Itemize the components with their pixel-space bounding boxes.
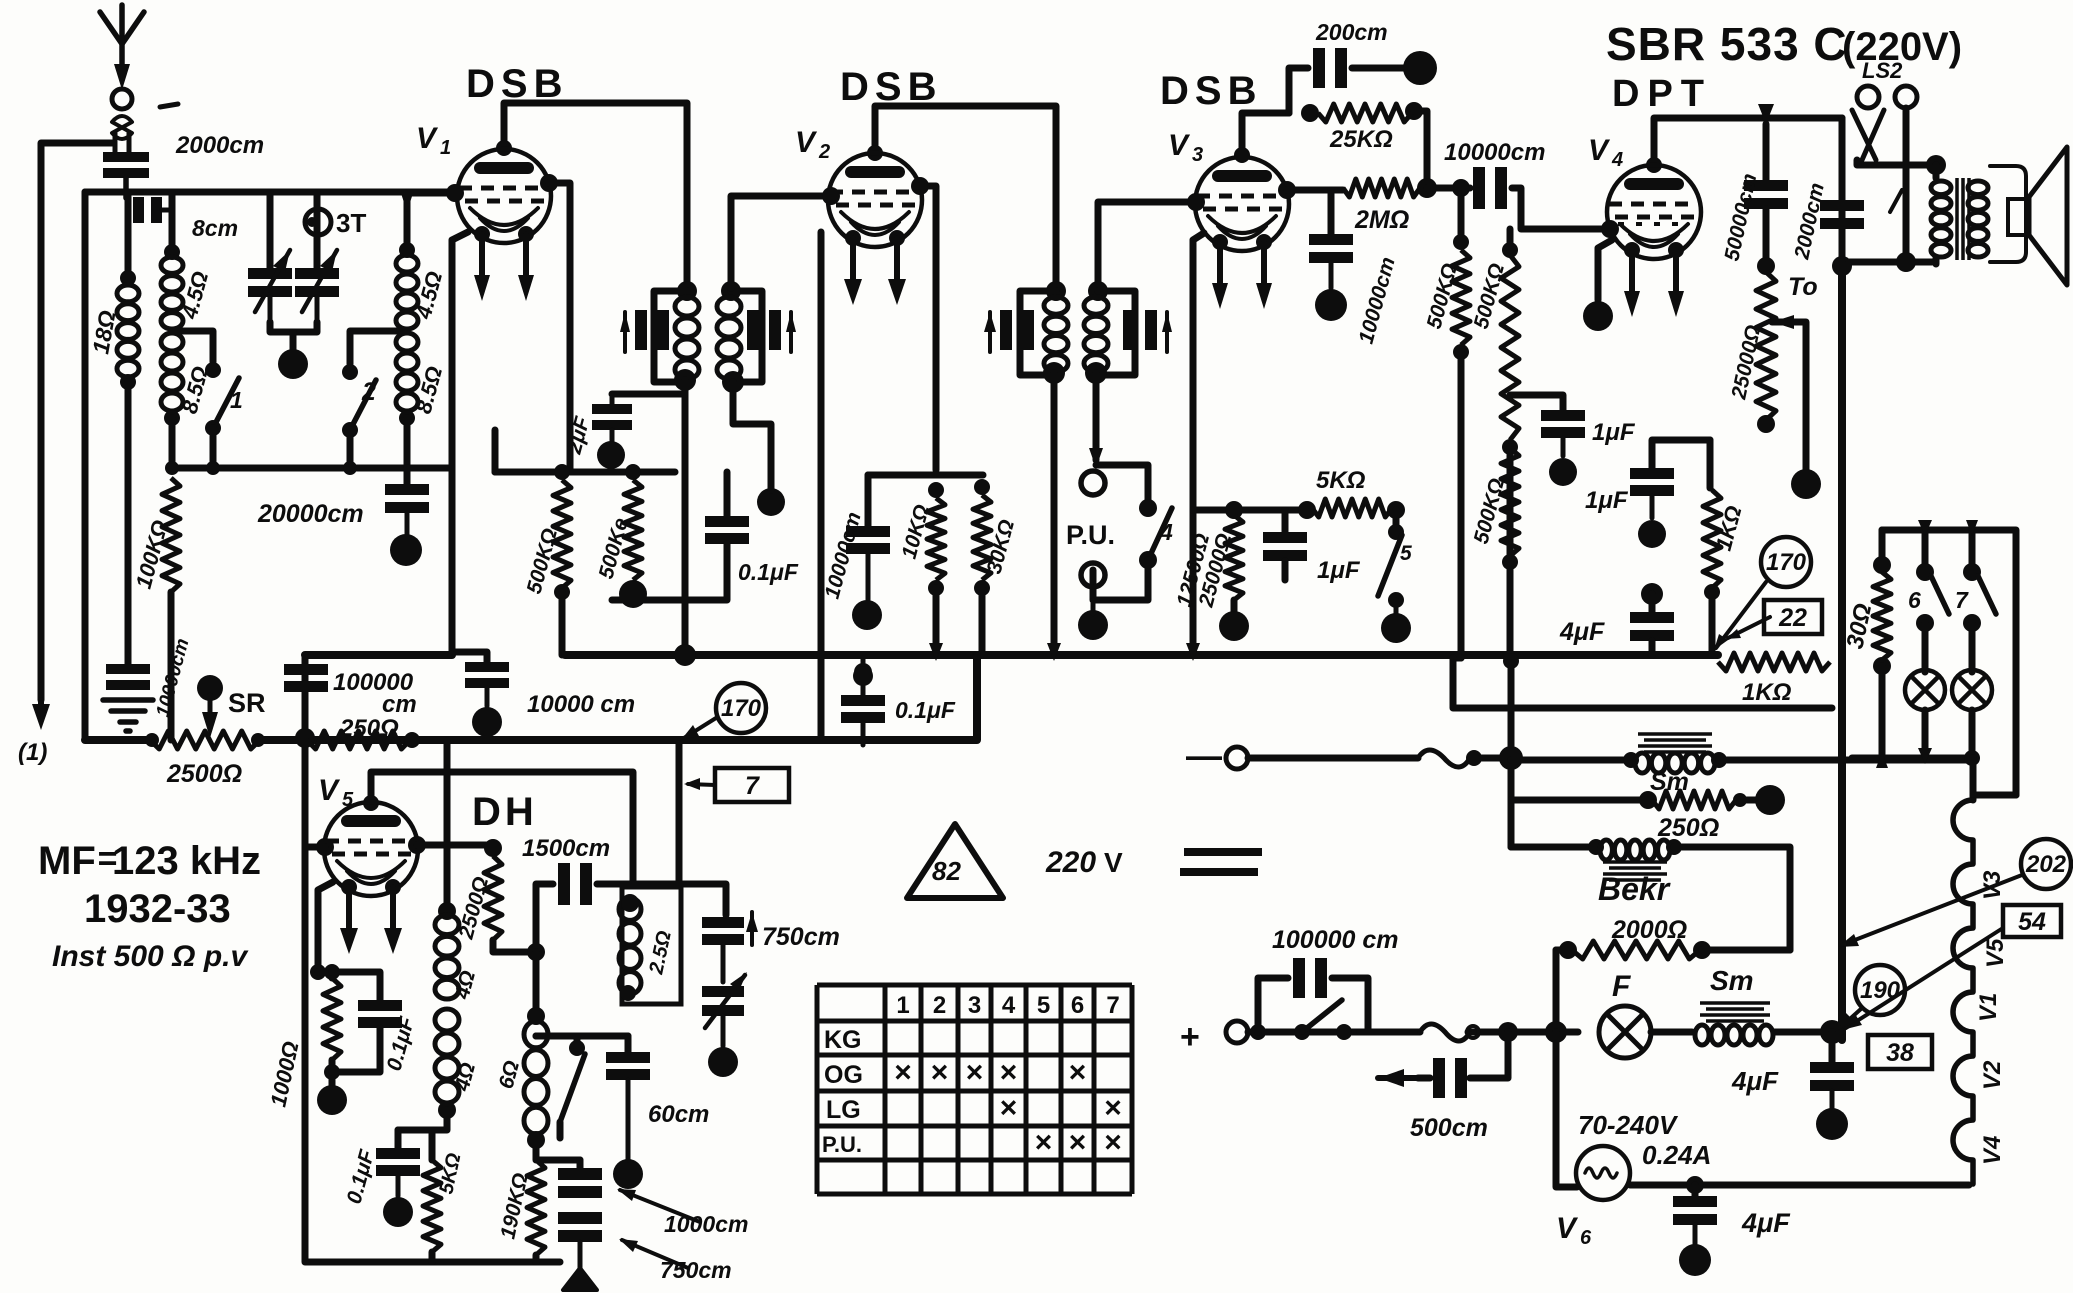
circled 202 [2021, 839, 2071, 889]
slash mark 1 [1890, 190, 1902, 212]
wire left frame [82, 192, 89, 740]
svg-text:cm: cm [382, 691, 417, 718]
resistor 1K ohm v [1703, 440, 1721, 655]
capacitor 200cm loop [1289, 48, 1408, 113]
coil 18 ohm column top [120, 192, 136, 286]
table X marks [894, 1056, 1122, 1159]
antenna terminal [112, 89, 132, 152]
label SBR 533C [1606, 18, 1962, 70]
heaters V2 [844, 230, 906, 305]
resistor 12500 ohm [1225, 515, 1243, 612]
capacitor det a [558, 1160, 602, 1198]
transformer output secondary [1968, 181, 1988, 257]
label V5 [318, 774, 354, 811]
svg-text:0.1μF: 0.1μF [895, 697, 956, 723]
svg-text:V: V [1556, 1212, 1579, 1245]
switch 2 [342, 331, 407, 468]
svg-text:82: 82 [932, 856, 961, 886]
label To [1788, 273, 1818, 301]
tube V4 [1607, 165, 1701, 259]
svg-text:V: V [795, 126, 818, 159]
node V2 right [911, 177, 929, 195]
svg-text:750cm: 750cm [762, 923, 840, 951]
switch 3 [536, 1036, 585, 1138]
node To wire blob [1791, 469, 1821, 499]
label DSB 3 [1160, 69, 1262, 113]
label 4.5 ohm right [410, 269, 447, 323]
svg-text:×: × [894, 1056, 912, 1089]
label 100K ohm [131, 517, 173, 591]
label 2000 ohm [1611, 916, 1687, 944]
switch 4 [1093, 508, 1173, 600]
svg-text:F: F [1612, 970, 1631, 1003]
svg-text:4μF: 4μF [1559, 618, 1605, 646]
coil IFT1 right [717, 297, 741, 379]
capacitor 0.1uF V1 [612, 472, 749, 600]
IFT1 left loop [654, 291, 687, 382]
svg-text:Sm: Sm [1710, 965, 1754, 996]
node 4uF right blob [1816, 1108, 1848, 1140]
label 2500 ohm det [454, 874, 493, 942]
svg-text:Inst 500 Ω p.v: Inst 500 Ω p.v [52, 940, 249, 973]
coil 8.5 ohm left [161, 333, 183, 426]
label V1 chain [1975, 993, 2002, 1022]
svg-text:OG: OG [824, 1061, 863, 1089]
svg-text:V1: V1 [1975, 993, 2002, 1022]
label 2000cm [175, 132, 264, 159]
svg-text:500cm: 500cm [1410, 1114, 1488, 1142]
pellet 33T [305, 209, 331, 235]
svg-text:7: 7 [745, 772, 760, 800]
table headers [896, 992, 1119, 1019]
svg-text:10000cm: 10000cm [1444, 139, 1545, 166]
resistor 1K ohm bus [1718, 653, 1830, 706]
svg-text:DSB: DSB [840, 65, 942, 109]
label 10000cm V2 [821, 510, 866, 602]
variable capacitor right [295, 192, 339, 322]
svg-text:202: 202 [2025, 851, 2067, 878]
label 1uF c2 [1585, 487, 1629, 514]
wire V1 plate to DSB bus [496, 103, 687, 288]
IFT2 left loop [1020, 291, 1056, 375]
wire V1 grid-load rail [495, 430, 675, 472]
resistor 2000 ohm [1556, 941, 1790, 959]
svg-text:1932-33: 1932-33 [84, 887, 231, 931]
label 4.5 ohm left [176, 269, 213, 323]
svg-text:10000 cm: 10000 cm [527, 691, 635, 718]
resistor 10K ohm [927, 482, 945, 655]
svg-text:60cm: 60cm [648, 1101, 709, 1128]
label 0.24A [1642, 1140, 1711, 1170]
label 70-240V [1578, 1110, 1679, 1140]
heater chain bumps [1953, 800, 1973, 1184]
table row labels [822, 1026, 863, 1157]
wire V1 right to down [549, 183, 570, 472]
svg-text:V2: V2 [1979, 1060, 2006, 1090]
svg-text:V: V [1168, 129, 1191, 162]
svg-text:6: 6 [1071, 992, 1084, 1019]
label 220V [1045, 846, 1123, 879]
heaters V4 [1624, 242, 1684, 317]
coil IFT1 left [675, 297, 699, 379]
wiper SR [197, 675, 223, 738]
wire IFT1 left down [682, 380, 689, 655]
IFT2 right loop [1098, 291, 1135, 375]
tube V2 [828, 153, 922, 247]
svg-text:1μF: 1μF [1317, 557, 1361, 584]
label 10000cm coupling [1444, 139, 1545, 166]
wire V3 bias rail [1193, 501, 1307, 519]
capacitor IFT2 right [1123, 310, 1172, 352]
svg-text:750cm: 750cm [660, 1257, 732, 1283]
tube V5 [324, 802, 418, 896]
svg-text:1: 1 [896, 992, 909, 1019]
svg-text:0.24A: 0.24A [1642, 1140, 1711, 1170]
node PU blob [1078, 600, 1108, 640]
resistor 500K ohm b [624, 464, 642, 580]
label det 4 ohm a [450, 968, 480, 1002]
svg-text:70-240V: 70-240V [1578, 1110, 1679, 1140]
svg-text:×: × [1069, 1056, 1087, 1089]
svg-text:4: 4 [1002, 992, 1016, 1019]
label V2 chain [1979, 1060, 2006, 1090]
wire IFT2 to V3 grid [1098, 202, 1196, 291]
resistor 100K ohm [162, 461, 180, 740]
node out top [1926, 155, 1946, 175]
node mid blob [708, 1047, 738, 1077]
node IFT2 bottom left [1043, 362, 1065, 384]
svg-text:4μF: 4μF [1731, 1066, 1779, 1096]
label 20000cm [257, 500, 364, 528]
coil IFT2 left [1044, 297, 1068, 372]
svg-text:3: 3 [1192, 144, 1203, 166]
switch 6 [1908, 520, 1949, 672]
lamp box frame [1882, 530, 2016, 795]
equals sign [1180, 852, 1262, 872]
node 20000cm blob [390, 534, 422, 566]
wire 2000 to plus [1553, 950, 1560, 1032]
svg-text:5: 5 [1037, 992, 1050, 1019]
speaker horn [2029, 147, 2067, 285]
label 0.1uF V2 [895, 697, 956, 723]
wire left coil to rail [169, 418, 176, 468]
terminal PU top [1081, 471, 1105, 495]
wire varcap join [270, 322, 317, 352]
wire V4 cathode left [1598, 240, 1612, 300]
svg-text:1000cm: 1000cm [664, 1211, 748, 1237]
node V3 grid left [1187, 193, 1205, 211]
svg-text:×: × [1035, 1126, 1053, 1159]
svg-text:25KΩ: 25KΩ [1329, 126, 1393, 153]
capacitor IFT2 left [984, 310, 1034, 352]
coil IFT2 right [1084, 297, 1108, 372]
label 30K ohm [983, 517, 1019, 576]
wire det junction [527, 1131, 580, 1160]
wire top edge tuner box [85, 189, 452, 196]
wire tuner bottom rail [172, 461, 452, 475]
wire mid drop [676, 744, 683, 884]
node V3 grid right [1278, 181, 1296, 199]
node V4 cathode blob [1583, 301, 1613, 331]
svg-text:V: V [1588, 134, 1611, 167]
label 4uF bottom [1741, 1208, 1791, 1238]
svg-text:×: × [966, 1056, 984, 1089]
node 250 ohm blob [1755, 785, 1785, 815]
label Sm lower [1710, 965, 1754, 996]
box 22 [1764, 600, 1822, 634]
svg-text:SBR 533 C: SBR 533 C [1606, 18, 1848, 70]
speaker driver [2008, 199, 2029, 235]
node det blob [383, 1197, 413, 1227]
circled 170 mid [681, 683, 766, 740]
label DH [472, 790, 538, 834]
svg-text:2MΩ: 2MΩ [1354, 206, 1409, 234]
svg-text:Bekr: Bekr [1598, 871, 1671, 907]
terminal PU bottom [1081, 563, 1105, 587]
svg-text:V3: V3 [1979, 870, 2006, 900]
capacitor 4uF right [1810, 1032, 1854, 1110]
coil 2.5 ohm [619, 887, 681, 1004]
label 500K ohm a [523, 526, 562, 596]
svg-text:(1): (1) [18, 739, 47, 766]
svg-text:V: V [1104, 847, 1123, 878]
svg-text:4: 4 [1159, 519, 1173, 545]
svg-text:0.1μF: 0.1μF [738, 559, 799, 585]
label 500K ohm d2 [1470, 476, 1509, 546]
label DSB 1 [466, 62, 568, 106]
label Bekr [1598, 871, 1671, 907]
label PU [1066, 520, 1115, 550]
resistor 250 ohm [307, 731, 420, 749]
arrow 54 [1842, 928, 2003, 1030]
wire V5 plate [363, 772, 633, 884]
svg-text:DPT: DPT [1612, 73, 1712, 115]
svg-text:×: × [1000, 1056, 1018, 1089]
capacitor 0.1uF det [376, 1130, 420, 1196]
svg-text:170: 170 [1766, 549, 1807, 576]
circled 190 [1855, 965, 1905, 1015]
svg-text:2: 2 [933, 992, 946, 1019]
label 2.5 ohm [645, 929, 676, 977]
svg-text:54: 54 [2018, 908, 2046, 936]
box 7 mid [684, 768, 789, 802]
node IFT1 top left [677, 281, 697, 301]
label 500K ohm c [1423, 261, 1462, 331]
lamp box bottom rail [1852, 748, 1980, 768]
label 190K ohm [496, 1171, 532, 1241]
svg-text:7: 7 [1106, 992, 1119, 1019]
coil det 4 ohm a [435, 915, 459, 999]
label 50000cm [1720, 171, 1761, 263]
label 100000cm plus [1272, 926, 1399, 954]
label 33T [336, 208, 366, 238]
node varcap ground blob [278, 349, 308, 379]
coil 4.5 ohm left [161, 192, 183, 329]
capacitor 10000cm coupling [1434, 167, 1610, 229]
wire IFT2 left down [1051, 373, 1058, 655]
svg-text:MF: MF [38, 839, 96, 883]
label 250 ohm bus [339, 715, 399, 742]
label V2 [795, 126, 830, 163]
resistor 25K ohm [1301, 102, 1427, 188]
heater chain line [1973, 758, 2016, 800]
variable capacitor mid [702, 972, 747, 1046]
svg-text:2: 2 [361, 378, 376, 406]
wiper To [1772, 315, 1806, 470]
node 10000cm V2 blob [852, 600, 882, 630]
resistor 5K ohm [1298, 499, 1405, 519]
antenna [100, 5, 178, 107]
coil 8.5 ohm right [396, 333, 418, 426]
svg-text:200cm: 200cm [1315, 19, 1388, 45]
arrow 202 [1838, 875, 2022, 947]
label 1932-33 [84, 887, 231, 931]
resistor 2M ohm [1287, 178, 1437, 198]
coil det 6 ohm [524, 952, 548, 1134]
capacitor 2000cm out [1820, 118, 1864, 262]
junction V4 top [1758, 104, 1842, 124]
label 0.1uF V1 [738, 559, 799, 585]
node IFT1 bottom left [674, 369, 696, 391]
wire PU link [1096, 465, 1157, 517]
label 2M ohm [1354, 206, 1409, 234]
ground det [563, 1268, 597, 1290]
capacitor antenna series [133, 197, 172, 223]
svg-text:×: × [1000, 1092, 1018, 1125]
ground [103, 700, 153, 731]
wire V2 grid left [731, 187, 840, 288]
capacitor det b [558, 1212, 602, 1268]
wire bias line [1453, 658, 1832, 708]
choke Sm upper [1511, 734, 1973, 773]
label DSB 2 [840, 65, 942, 109]
svg-text:Sm: Sm [1650, 768, 1689, 796]
wire V3 cathode down [1193, 233, 1204, 655]
svg-text:DSB: DSB [466, 62, 568, 106]
resistor V5 bias [318, 964, 341, 1086]
wire plus to fuse [1360, 1029, 1420, 1036]
node 190 junction [1820, 1020, 1844, 1044]
label 8.5 ohm right [411, 364, 448, 417]
label det 4 ohm b [450, 1060, 480, 1094]
svg-text:×: × [1104, 1092, 1122, 1125]
svg-text:8cm: 8cm [192, 215, 238, 241]
resistor 30K ohm [973, 479, 991, 655]
label 1uF bias [1317, 557, 1361, 584]
arrow 190 [1838, 1008, 1862, 1030]
capacitor 60cm plates [606, 1036, 650, 1120]
label V1 [416, 122, 451, 159]
label 4uF a [1559, 618, 1605, 646]
arrow 170-22 [1714, 582, 1770, 650]
svg-text:+: + [1180, 1018, 1200, 1056]
label 1K ohm v [1711, 503, 1747, 553]
resistor 5K det [398, 1130, 441, 1262]
label 10000cm V3 [1355, 255, 1400, 347]
svg-text:3: 3 [968, 992, 981, 1019]
switch 5 [1378, 510, 1412, 614]
wire IFT1 to 2uF row [612, 391, 685, 398]
heaters V5 [340, 879, 402, 954]
main bus right segment [1453, 655, 1461, 662]
lamp F [1556, 970, 1651, 1058]
svg-text:6: 6 [1908, 587, 1921, 613]
svg-text:V5: V5 [1982, 938, 2009, 968]
svg-text:P.U.: P.U. [822, 1132, 862, 1157]
circled 170 right [1761, 537, 1811, 587]
switch 7 [1955, 520, 1996, 672]
capacitor 0.1uF bus [853, 666, 873, 686]
main bus C lower [85, 655, 977, 740]
wire V4 plate top [1646, 118, 1766, 173]
wire V2 cathode down [920, 186, 936, 470]
svg-text:1μF: 1μF [1592, 419, 1636, 446]
tube V3 [1195, 157, 1289, 251]
label Sm upper [1650, 768, 1689, 796]
capacitor 750cm a [702, 912, 758, 982]
wire V2 plate to DSB bus [867, 106, 1056, 288]
speaker frame [1990, 166, 2026, 262]
node 12500 blob [1219, 611, 1249, 641]
label V4 [1588, 134, 1623, 171]
node plus junction [1498, 1021, 1567, 1043]
choke Sm lower [1651, 1003, 1832, 1045]
wire 1000 ohm column [305, 655, 560, 1262]
svg-text:LG: LG [826, 1096, 861, 1124]
svg-text:3T: 3T [336, 208, 366, 238]
resistor 30 ohm [1873, 556, 1891, 758]
capacitor IFT1 left [620, 310, 669, 352]
svg-text:To: To [1788, 273, 1818, 301]
wire below 18 ohm coil [120, 374, 136, 664]
node IFT1 top right [721, 281, 741, 301]
coil det 4 ohm b [432, 1009, 459, 1130]
heaters V3 [1212, 234, 1272, 309]
capacitor 1uF c2 [1630, 440, 1710, 518]
svg-text:123 kHz: 123 kHz [112, 839, 261, 883]
svg-text:2: 2 [818, 141, 830, 163]
label 500cm [1410, 1114, 1488, 1142]
label 60cm [648, 1101, 709, 1128]
svg-text:6: 6 [1580, 1227, 1592, 1249]
svg-text:100000 cm: 100000 cm [1272, 926, 1399, 954]
wire left power vertical [1503, 653, 1519, 847]
resistor 500K ohm d [1501, 229, 1519, 658]
label 5K det [435, 1151, 465, 1196]
node V2 grid end blob [757, 430, 785, 516]
label V5 chain [1982, 938, 2009, 968]
label 8cm [192, 215, 238, 241]
capacitor IFT1 right [747, 310, 796, 352]
capacitor 100000cm loop [1258, 958, 1368, 1032]
label det 6 ohm [495, 1058, 524, 1091]
svg-text:×: × [931, 1056, 949, 1089]
svg-text:20000cm: 20000cm [257, 500, 364, 528]
svg-text:2000cm: 2000cm [175, 132, 264, 159]
node 4uF bottom blob [1679, 1244, 1711, 1276]
svg-text:7: 7 [1955, 587, 1969, 613]
resistor 500K ohm a [553, 464, 571, 655]
label SR [228, 688, 266, 718]
potentiometer 2500 ohm [145, 731, 265, 749]
svg-text:DH: DH [472, 790, 538, 834]
label 10K ohm [898, 502, 934, 561]
capacitor 4uF bottom [1673, 1176, 1717, 1244]
node bus junction c [1047, 643, 1200, 661]
resistor 500K ohm c [1427, 179, 1470, 658]
node V5 grid left [305, 838, 334, 856]
capacitor 10000cm V2 [846, 526, 890, 600]
